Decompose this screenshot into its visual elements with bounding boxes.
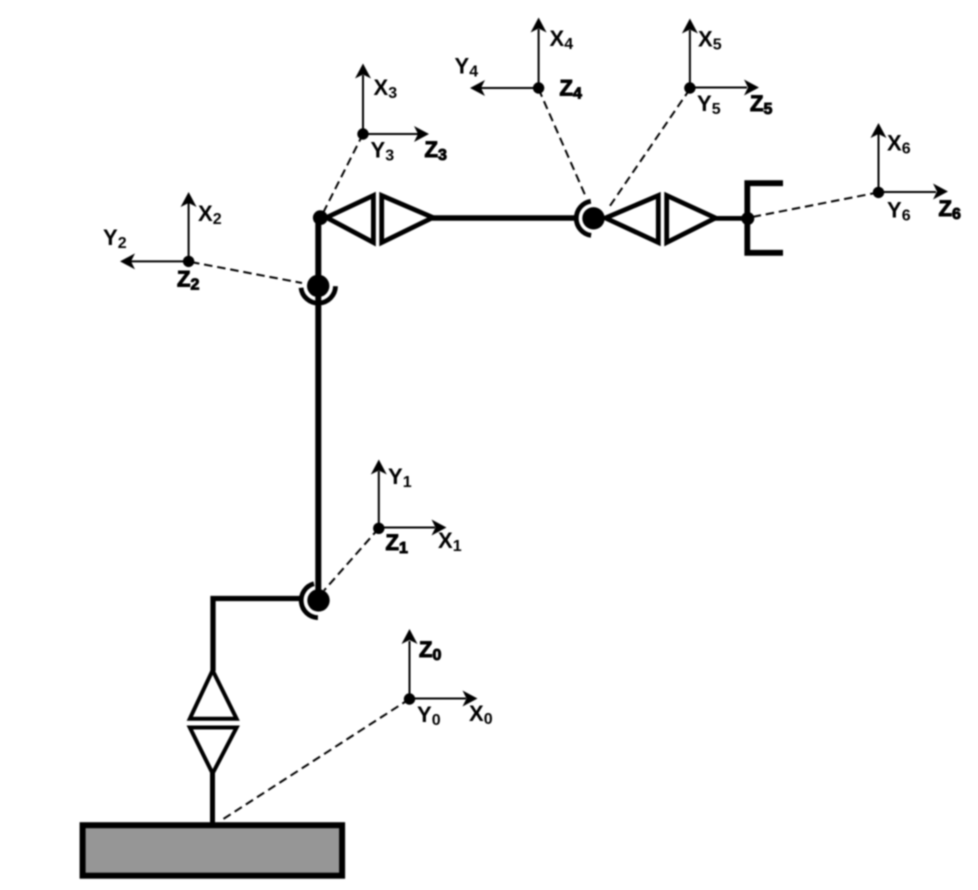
svg-text:Y3: Y3 [371, 138, 395, 165]
joint J1 twist symbol upper triangle [190, 670, 237, 719]
svg-text:Z3: Z3 [425, 137, 447, 164]
wire dashed leader frame6 to gripper node [752, 192, 879, 217]
base plate [83, 825, 343, 876]
node frame F4 origin dot [533, 82, 544, 93]
svg-text:Z6: Z6 [939, 196, 961, 223]
wire dashed leader frame4 to wrist joint [539, 89, 587, 198]
node elbow top dot [313, 210, 328, 225]
frame F5 axis Z5 arrow [690, 80, 759, 96]
svg-text:Y6: Y6 [887, 198, 911, 225]
frame F1 axis X1 arrow [379, 520, 447, 536]
frame F1 axis Y1 arrow [371, 460, 387, 529]
svg-text:X2: X2 [198, 201, 222, 228]
svg-text:X4: X4 [550, 26, 574, 53]
joint J5 wrist revolute arc [576, 201, 591, 235]
joint J3 elbow revolute arc [301, 286, 336, 303]
joint J5 wrist revolute circle [582, 207, 604, 229]
node frame F2 origin dot [183, 256, 194, 267]
svg-text:Z0: Z0 [419, 637, 441, 664]
frame F3 axis X3 arrow [355, 64, 371, 135]
node frame F1 origin dot [373, 523, 384, 534]
svg-text:X0: X0 [469, 701, 493, 728]
joint J6 twist symbol left triangle [606, 196, 659, 243]
svg-text:Y0: Y0 [417, 702, 441, 729]
frame F2 axis Y2 arrow [120, 253, 189, 269]
joint J4 twist symbol left triangle [327, 196, 374, 243]
node gripper dot [741, 212, 754, 225]
svg-text:Z5: Z5 [750, 91, 772, 118]
node frame F3 origin dot [357, 128, 368, 139]
end effector gripper bracket [747, 183, 783, 253]
svg-text:X1: X1 [438, 528, 462, 555]
svg-text:Y4: Y4 [455, 54, 479, 81]
wire link2 main vertical link [315, 218, 321, 592]
frame F3 axis Z3 arrow [363, 126, 429, 142]
svg-text:Z1: Z1 [386, 530, 408, 557]
wire dashed leader frame1 to shoulder joint [324, 528, 379, 590]
svg-text:X3: X3 [374, 75, 398, 102]
svg-text:X5: X5 [698, 27, 722, 54]
svg-text:X6: X6 [887, 131, 911, 158]
svg-text:Y1: Y1 [388, 464, 412, 491]
wire dashed leader frame2 to elbow joint [191, 262, 302, 283]
joint J2 shoulder revolute circle [307, 589, 329, 611]
svg-text:Y2: Y2 [103, 225, 127, 252]
wire link3 upper horizontal link [432, 215, 577, 221]
joint J1 twist symbol lower triangle [190, 728, 237, 774]
node frame F0 origin dot [404, 693, 415, 704]
joint J2 shoulder revolute arc [301, 584, 318, 618]
frame F5 axis X5 arrow [682, 19, 698, 89]
frame F2 axis X2 arrow [181, 192, 197, 261]
frame F4 axis X4 arrow [531, 18, 547, 89]
svg-text:Z4: Z4 [560, 76, 582, 103]
svg-text:Y5: Y5 [697, 91, 721, 118]
frame F6 axis X6 arrow [871, 123, 887, 192]
wire dashed leader frame3 to elbow top node [322, 134, 364, 216]
wire dashed leader frame0 to base [221, 699, 410, 821]
wire link1 L-shape from twist joint to shoulder joint [213, 599, 300, 672]
node frame F5 origin dot [684, 82, 695, 93]
frame F0 axis Z0 arrow [402, 629, 418, 699]
frame F0 axis X0 arrow [410, 691, 478, 707]
joint J3 elbow revolute circle [307, 275, 329, 297]
wire link0 vertical from base to twist joint [210, 772, 215, 825]
svg-text:Z2: Z2 [177, 267, 199, 294]
joint J6 twist symbol right triangle [667, 196, 716, 243]
node frame F6 origin dot [873, 187, 884, 198]
wire link4 short link to gripper [715, 216, 747, 221]
frame F4 axis Y4 arrow [470, 80, 539, 96]
joint J4 twist symbol right triangle [382, 196, 433, 243]
frame F6 axis Z6 arrow [879, 184, 949, 200]
wire dashed leader frame5 to wrist joint [610, 89, 690, 207]
